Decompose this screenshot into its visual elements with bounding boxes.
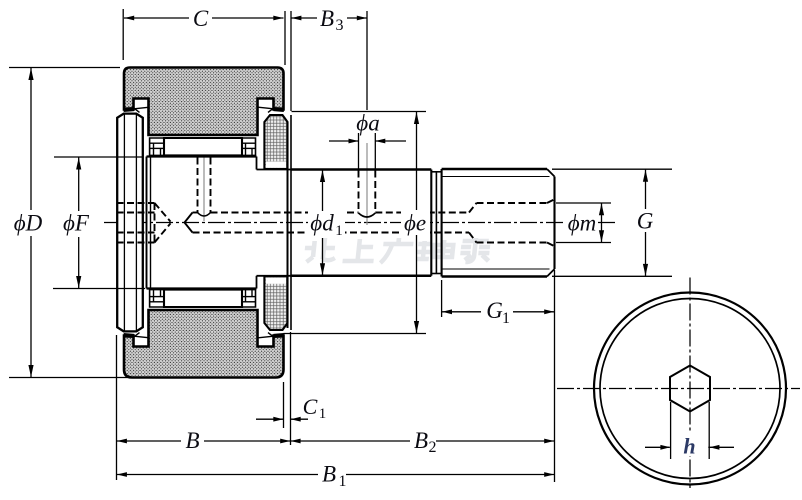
grease hole phi-a center line (gray) (366, 143, 368, 225)
dimension B1 (117, 474, 318, 476)
dimension B2 (291, 440, 411, 442)
svg-text:1: 1 (339, 473, 347, 490)
svg-text:G: G (486, 298, 503, 323)
svg-text:C: C (193, 6, 209, 31)
seal top-left (124, 108, 133, 112)
axial lube hole (hidden) (193, 212, 198, 214)
label phi e (401, 210, 430, 235)
dimension phi e (292, 111, 427, 113)
dimension h (670, 402, 672, 459)
stud raceway (146, 157, 148, 289)
svg-text:ϕF: ϕF (63, 211, 90, 236)
radial lube hole to raceway (hidden) (197, 158, 199, 213)
dimension C (122, 9, 124, 60)
svg-text:ϕd: ϕd (310, 211, 334, 236)
lube hole junction cup 1 (198, 213, 211, 217)
side plate upper (264, 115, 287, 169)
side view inner circle (600, 299, 780, 479)
svg-text:B: B (320, 6, 334, 31)
left hex socket (hidden) (117, 202, 155, 204)
dimension phi D (9, 67, 120, 69)
svg-text:3: 3 (336, 17, 344, 34)
svg-text:ϕe: ϕe (404, 211, 426, 236)
dimension phi m (556, 202, 611, 204)
dimension phi d1 (322, 170, 324, 211)
label phi d1 (308, 211, 345, 237)
needle rollers and cage (bottom) (150, 290, 256, 307)
svg-text:B: B (414, 428, 428, 453)
dimension C1 (283, 382, 285, 428)
svg-text:1: 1 (319, 406, 327, 422)
main horizontal center line (104, 222, 618, 224)
dimension B3 (290, 11, 292, 111)
dimension phi F (54, 156, 143, 158)
stud shaft phi-d1 with relief groove (291, 168, 431, 171)
svg-text:ϕm: ϕm (568, 211, 597, 236)
seal top-right (274, 108, 283, 112)
dimension G1 (441, 280, 443, 317)
axial hole drill point (185, 213, 193, 233)
watermark text (303, 238, 491, 263)
side view vertical center line (689, 278, 691, 489)
side view outer circle (594, 293, 786, 485)
stud flange (117, 114, 143, 332)
svg-text:h: h (683, 434, 695, 459)
threaded section G (441, 169, 443, 277)
outer ring upper section (124, 68, 284, 136)
svg-text:1: 1 (335, 223, 343, 239)
svg-text:B: B (185, 428, 199, 453)
side plate lower (264, 276, 287, 330)
svg-text:B: B (322, 462, 336, 487)
raceway lube hole center line (gray) (203, 150, 205, 221)
label phi m (566, 211, 598, 235)
needle rollers and cage (top) (150, 138, 256, 155)
label phi a (354, 114, 383, 133)
grease hole phi-a (hidden) (358, 171, 360, 213)
lube hole junction cup 2 (359, 213, 376, 217)
svg-text:2: 2 (429, 439, 437, 456)
svg-text:G: G (637, 209, 654, 234)
label h (678, 433, 702, 456)
seal bottom-right (274, 334, 283, 338)
dimension G (552, 168, 672, 170)
dimension B (116, 335, 118, 480)
outer ring lower section (124, 310, 284, 378)
seal bottom-left (124, 334, 133, 338)
hex socket (670, 366, 710, 412)
svg-text:ϕD: ϕD (14, 211, 43, 236)
svg-text:1: 1 (502, 310, 510, 327)
side view horizontal center line (557, 388, 800, 390)
stud shoulder face (290, 115, 292, 330)
right hex socket (hidden) (469, 203, 477, 213)
svg-text:C: C (303, 394, 318, 419)
dimension phi a (358, 133, 360, 170)
svg-text:ϕa: ϕa (356, 111, 379, 136)
